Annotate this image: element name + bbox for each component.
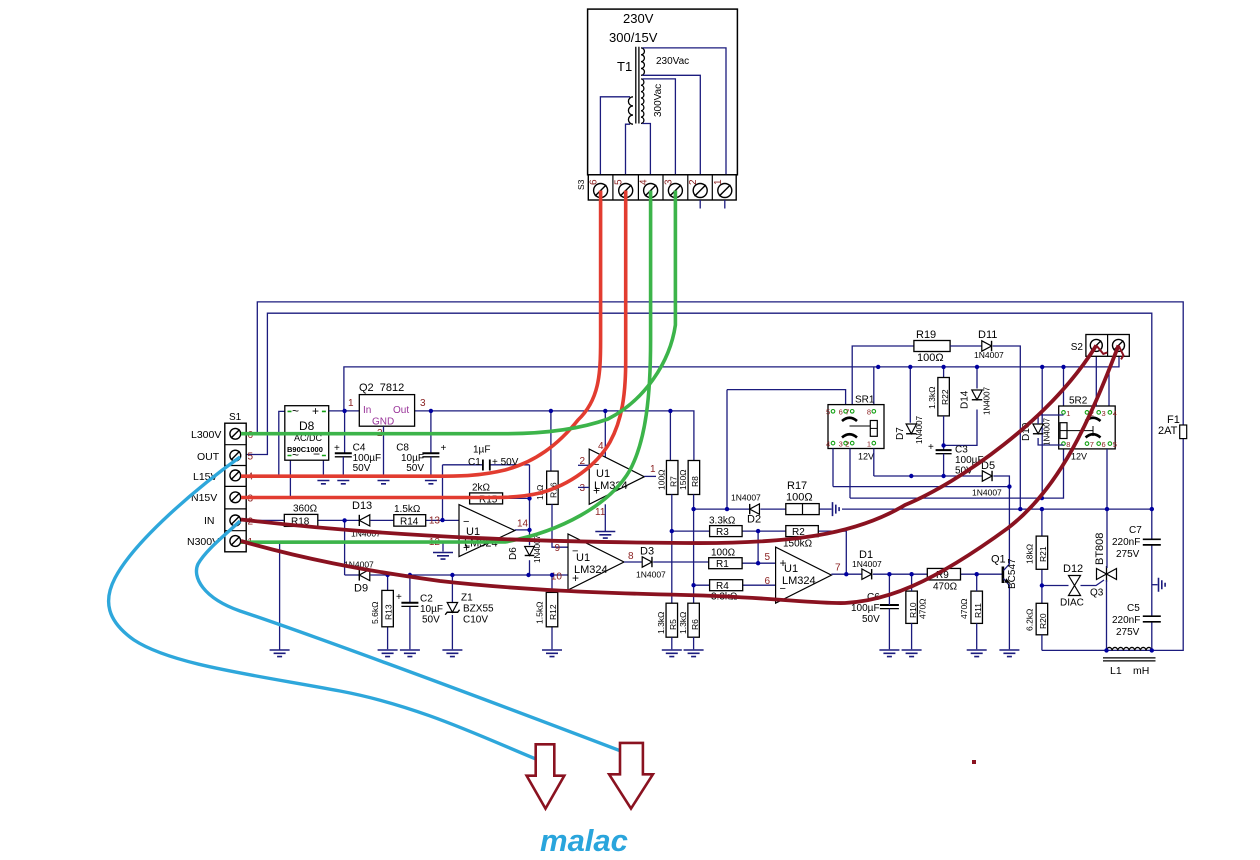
stub terminal S3-1 bbox=[724, 200, 726, 209]
wire S2-A to SR2 pin3 bbox=[1095, 356, 1097, 406]
svg-text:1.5kΩ: 1.5kΩ bbox=[394, 504, 421, 515]
wire D10 bottom bbox=[1038, 438, 1063, 445]
svg-text:5: 5 bbox=[248, 452, 254, 463]
svg-text:L1: L1 bbox=[1110, 665, 1122, 677]
SR2 coil bbox=[1060, 423, 1067, 439]
terminal block S2 bbox=[1086, 335, 1129, 357]
diode D14 bbox=[972, 390, 982, 400]
winding 300Vac bbox=[641, 79, 644, 124]
wire feedback left vertical bbox=[442, 465, 444, 520]
wire U1a pin3 stub bbox=[578, 486, 589, 488]
SR1 contact link bbox=[850, 425, 871, 427]
wire N300V ground tap bbox=[279, 541, 281, 650]
svg-text:R5: R5 bbox=[668, 619, 678, 630]
wire R10 stems bbox=[911, 574, 913, 649]
wire unregulated supply rail bbox=[344, 356, 1119, 411]
diode D6 bbox=[525, 547, 535, 556]
wire Z1 stems bbox=[451, 575, 453, 649]
terminal S3-2 screw bbox=[693, 184, 707, 198]
wire SR2 pin1 to rail bbox=[1063, 367, 1065, 406]
svg-text:+: + bbox=[928, 442, 934, 453]
svg-text:3: 3 bbox=[1102, 409, 1106, 418]
svg-text:1: 1 bbox=[867, 440, 871, 449]
wire D8 AC bottom to N15V bbox=[289, 460, 291, 497]
wire Q2 GND to ground bbox=[383, 426, 385, 476]
triac Q3 bbox=[1097, 569, 1107, 580]
wire R17 to ground right bbox=[819, 508, 831, 510]
svg-text:D3: D3 bbox=[640, 546, 654, 558]
svg-text:8: 8 bbox=[628, 551, 634, 562]
wire D7 top bbox=[909, 367, 911, 423]
svg-text:300Vac: 300Vac bbox=[653, 84, 664, 117]
svg-text:2: 2 bbox=[845, 440, 849, 449]
svg-text:C4: C4 bbox=[353, 443, 366, 454]
svg-text:D7: D7 bbox=[895, 427, 906, 440]
resistor R13 bbox=[382, 590, 394, 626]
D8 pin marks bbox=[288, 411, 326, 455]
svg-text:7: 7 bbox=[1090, 440, 1094, 449]
stray dot bbox=[972, 760, 976, 764]
svg-text:275V: 275V bbox=[1116, 627, 1140, 638]
svg-text:T1: T1 bbox=[617, 59, 632, 74]
ground R13 bbox=[378, 650, 398, 657]
wire SR2 pin4 to rail bbox=[1108, 367, 1110, 406]
capacitor C3 bbox=[936, 449, 952, 451]
Q1 emitter bbox=[1004, 579, 1010, 650]
wire R1 line bbox=[742, 562, 776, 564]
wire L300V perimeter loop with F1 and right border bbox=[257, 302, 1183, 651]
wire red 15VAC from S3-6 to S1 L15V bbox=[241, 191, 601, 477]
svg-text:50V: 50V bbox=[353, 463, 371, 474]
resistor R1 bbox=[709, 558, 742, 569]
wire reference line D9 to U1c pin10 bbox=[370, 574, 568, 576]
svg-text:Out: Out bbox=[393, 405, 409, 416]
svg-text:3: 3 bbox=[839, 440, 843, 449]
svg-text:R10: R10 bbox=[908, 602, 918, 618]
svg-text:470Ω: 470Ω bbox=[933, 582, 958, 593]
wire winding300 bottom to terminal 4 bbox=[642, 124, 650, 184]
wire R8 bottom through D2 line to R6 bbox=[693, 495, 695, 604]
relay SR1 body bbox=[828, 405, 884, 449]
resistor R22 bbox=[938, 378, 950, 416]
svg-text:4: 4 bbox=[639, 179, 650, 185]
wire D3 to R1 bbox=[653, 561, 709, 563]
svg-text:1.3kΩ: 1.3kΩ bbox=[927, 387, 937, 409]
terminal S1-6 screw bbox=[230, 428, 241, 439]
wire U1b pin12 to ground bbox=[443, 541, 459, 551]
svg-text:D12: D12 bbox=[1063, 563, 1083, 575]
resistor R18 bbox=[284, 514, 318, 526]
wire D2 to R17 bbox=[760, 508, 786, 510]
svg-text:6: 6 bbox=[1102, 440, 1106, 449]
wire C2 stems bbox=[409, 575, 411, 649]
ground C8 bbox=[421, 477, 441, 484]
wire R7 bottom through R3 line to R5 bbox=[671, 495, 673, 604]
svg-text:DIAC: DIAC bbox=[1060, 598, 1084, 609]
ground Z1 bbox=[442, 650, 462, 657]
wire C8 bottom bbox=[430, 457, 432, 477]
svg-text:100Ω: 100Ω bbox=[786, 492, 813, 504]
wire R12 stems bbox=[551, 575, 553, 649]
zener Z1 bbox=[447, 603, 457, 613]
terminal strip S3 bbox=[588, 175, 736, 200]
resistor R10 bbox=[906, 591, 918, 623]
svg-text:230Vac: 230Vac bbox=[656, 56, 689, 67]
svg-text:R6: R6 bbox=[690, 619, 700, 630]
resistor R20 bbox=[1036, 603, 1048, 635]
svg-text:3.3kΩ: 3.3kΩ bbox=[709, 516, 736, 527]
terminal S1-4 screw bbox=[230, 470, 241, 481]
ground Q1 bbox=[999, 650, 1019, 657]
wire R9 to Q1 base bbox=[961, 573, 1003, 575]
junction node dots bbox=[342, 409, 346, 413]
wire U1a pin11 to ground bbox=[604, 504, 606, 531]
svg-text:1: 1 bbox=[650, 464, 656, 475]
terminal S3-6 screw bbox=[594, 184, 608, 198]
op-amp U1d bbox=[776, 547, 832, 603]
diode D7 bbox=[906, 424, 916, 434]
wire reference line left segment to D9 bbox=[345, 574, 360, 576]
svg-text:5: 5 bbox=[614, 179, 625, 185]
svg-text:100µF: 100µF bbox=[851, 603, 880, 614]
svg-text:6: 6 bbox=[589, 179, 600, 185]
svg-text:18kΩ: 18kΩ bbox=[1024, 544, 1034, 564]
maroon tail S2-A bbox=[1096, 345, 1107, 354]
resistor R14 bbox=[394, 515, 426, 527]
svg-text:R3: R3 bbox=[716, 527, 729, 538]
wire R14 to U1b inverting input bbox=[426, 519, 459, 521]
connector S1 body bbox=[225, 423, 246, 552]
resistor R12 bbox=[546, 592, 558, 626]
wire C4 top tap bbox=[344, 411, 346, 453]
svg-text:R7: R7 bbox=[669, 476, 679, 487]
svg-text:6.2kΩ: 6.2kΩ bbox=[1024, 609, 1034, 631]
svg-text:360Ω: 360Ω bbox=[293, 504, 318, 515]
svg-text:S3: S3 bbox=[576, 179, 586, 190]
diode D2 bbox=[750, 504, 760, 514]
terminal S1-1 screw bbox=[230, 536, 241, 547]
wire pin5 node vertical bbox=[757, 531, 759, 563]
terminal S3-1 screw bbox=[718, 184, 732, 198]
wire SR2 pin5 to triac line bbox=[1106, 449, 1108, 509]
svg-text:1N4007: 1N4007 bbox=[915, 415, 924, 444]
wire R21 stems bbox=[1041, 509, 1043, 603]
svg-text:R21: R21 bbox=[1038, 546, 1048, 562]
svg-text:malac: malac bbox=[540, 823, 628, 858]
svg-text:50V: 50V bbox=[862, 614, 880, 625]
diac D12 bbox=[1069, 576, 1081, 586]
wire R16 bottom to U1c pin9 bbox=[552, 504, 568, 547]
wire R5 bottom bbox=[671, 637, 673, 649]
wire bottom rail bbox=[1042, 649, 1152, 651]
Q1 collector bbox=[1004, 487, 1010, 571]
SR2 contact link bbox=[1067, 426, 1093, 436]
wire C6 stems bbox=[888, 574, 890, 649]
wire green 300VAC from S3-4 to S1 N300V bbox=[241, 191, 651, 543]
wire green 300VAC from S3-3 to S1 L300V bbox=[241, 191, 675, 434]
svg-text:3: 3 bbox=[663, 179, 674, 185]
ground R10 bbox=[902, 650, 922, 657]
wire SR1 pin1 to line1 bbox=[873, 449, 875, 477]
terminal S2-A screw bbox=[1090, 339, 1102, 351]
svg-text:100Ω: 100Ω bbox=[657, 469, 667, 490]
wire R3 line left bbox=[672, 530, 710, 532]
wire D12 line bbox=[1042, 580, 1104, 586]
wire U1c output to D3 bbox=[624, 561, 642, 563]
svg-text:R22: R22 bbox=[940, 389, 950, 405]
svg-text:C5: C5 bbox=[1127, 603, 1140, 614]
winding 230Vac bbox=[641, 48, 644, 75]
svg-text:12V: 12V bbox=[858, 452, 874, 462]
svg-text:D14: D14 bbox=[960, 390, 971, 409]
svg-text:R4: R4 bbox=[716, 581, 729, 592]
wire SR1 pin2 to line3 bbox=[849, 449, 851, 499]
svg-text:1N4007: 1N4007 bbox=[1043, 417, 1052, 446]
wire line2 bbox=[833, 486, 1009, 488]
wire R3 to R2 bbox=[742, 530, 786, 532]
wire top jog to SR1 pin6 bbox=[727, 390, 846, 405]
wire relay contact line bbox=[842, 508, 1152, 510]
wire +12V rail Q2 Out to R8 bbox=[415, 411, 694, 461]
svg-text:1N4007: 1N4007 bbox=[983, 386, 992, 415]
stub terminal S3-2 bbox=[699, 200, 701, 209]
svg-text:1N4007: 1N4007 bbox=[974, 350, 1004, 360]
wire SR1 pin4 to line2 bbox=[832, 449, 834, 487]
wire C4 bottom bbox=[342, 457, 344, 477]
capacitor C5 bbox=[1143, 616, 1161, 622]
wire rail drop to relay drive node bbox=[1041, 367, 1043, 498]
wire right ground stub bbox=[1152, 584, 1158, 586]
svg-text:R19: R19 bbox=[916, 329, 936, 341]
svg-text:5: 5 bbox=[826, 408, 830, 417]
op-amp U1b bbox=[459, 505, 515, 557]
wire winding230 bottom to terminal 2 bbox=[643, 75, 701, 183]
wire blue from S1 OUT to arrow1 bbox=[109, 457, 553, 766]
svg-text:220nF: 220nF bbox=[1112, 615, 1140, 626]
wire R15 leads bbox=[443, 497, 530, 499]
svg-text:S2: S2 bbox=[1071, 342, 1084, 353]
svg-text:150Ω: 150Ω bbox=[678, 469, 688, 490]
ground R6 bbox=[684, 650, 704, 657]
diode D10 bbox=[1033, 424, 1043, 434]
svg-text:In: In bbox=[363, 405, 371, 416]
svg-text:U1: U1 bbox=[576, 552, 590, 564]
svg-text:R1: R1 bbox=[716, 559, 729, 570]
ground S1 area bbox=[270, 650, 290, 657]
svg-text:BC547: BC547 bbox=[1007, 558, 1018, 589]
wire D11 output drop bbox=[993, 346, 1021, 509]
svg-text:C10V: C10V bbox=[463, 615, 488, 626]
svg-text:9: 9 bbox=[554, 543, 560, 554]
resistor R5 bbox=[666, 603, 678, 637]
wire R7 top tap bbox=[669, 411, 671, 461]
wire C3 bottom bbox=[943, 454, 945, 476]
svg-text:1.5kΩ: 1.5kΩ bbox=[535, 602, 545, 624]
svg-text:OUT: OUT bbox=[197, 451, 220, 463]
svg-text:5R2: 5R2 bbox=[1069, 396, 1088, 407]
SR1 coil bbox=[870, 421, 877, 437]
wire D14 bottom jog to C3 node bbox=[944, 410, 977, 446]
resistor R6 bbox=[688, 603, 700, 637]
svg-text:Q1: Q1 bbox=[991, 554, 1006, 566]
transistor Q1 base bar bbox=[1002, 567, 1005, 584]
op-amp U1a bbox=[589, 449, 644, 504]
svg-text:2kΩ: 2kΩ bbox=[472, 483, 491, 494]
ground R5 bbox=[662, 650, 682, 657]
svg-text:6: 6 bbox=[764, 576, 770, 587]
wire red 15VAC from S3-5 to S1 N15V bbox=[241, 191, 626, 498]
arrow symbol 2 bbox=[609, 743, 653, 809]
wire SR1 pin7 to R19 bbox=[852, 346, 914, 405]
svg-text:Z1: Z1 bbox=[461, 593, 473, 604]
inductor L1 bbox=[1107, 647, 1152, 650]
wire U1a pin2 stub bbox=[578, 464, 589, 466]
wire vertical from relay box to D2 node bbox=[726, 390, 728, 510]
wire triac column bbox=[1106, 509, 1109, 650]
regulator Q2 body bbox=[359, 395, 414, 427]
wire maroon from S1 N300V to S2-B bbox=[241, 345, 1119, 603]
capacitor C7 bbox=[1143, 539, 1161, 545]
svg-text:1: 1 bbox=[348, 398, 354, 409]
svg-text:C8: C8 bbox=[396, 443, 409, 454]
resistor R16 bbox=[547, 471, 559, 504]
diode D13 bbox=[359, 515, 370, 526]
op-amp U1c bbox=[568, 534, 624, 590]
wire U1d output to D1 bbox=[831, 573, 862, 575]
svg-text:470Ω: 470Ω bbox=[959, 598, 969, 619]
primary winding bbox=[628, 97, 633, 124]
transformer T1 enclosure box bbox=[588, 9, 738, 175]
svg-text:~: ~ bbox=[292, 404, 299, 418]
svg-text:10µF: 10µF bbox=[420, 604, 443, 615]
wire R6 bottom bbox=[693, 637, 695, 649]
diode D3 bbox=[642, 557, 652, 567]
terminal S2-B screw bbox=[1113, 339, 1125, 351]
svg-text:220nF: 220nF bbox=[1112, 537, 1140, 548]
wire line3 bbox=[850, 449, 1064, 498]
Q1 emitter arrow bbox=[1004, 578, 1010, 583]
resistor R7 bbox=[666, 461, 678, 495]
svg-text:12V: 12V bbox=[1071, 452, 1087, 462]
wire D8 minus to ground bbox=[322, 460, 324, 476]
wire D8 AC top to L15V bbox=[279, 411, 285, 476]
svg-text:13: 13 bbox=[429, 516, 441, 527]
resistor R17 bbox=[786, 504, 819, 515]
svg-text:1N4007: 1N4007 bbox=[852, 559, 882, 569]
capacitor C4 bbox=[335, 452, 352, 454]
svg-text:1N4007: 1N4007 bbox=[731, 493, 761, 503]
svg-text:+: + bbox=[441, 443, 447, 454]
svg-text:D6: D6 bbox=[508, 547, 519, 560]
svg-text:275V: 275V bbox=[1116, 549, 1140, 560]
svg-text:C7: C7 bbox=[1129, 525, 1142, 536]
svg-text:SR1: SR1 bbox=[855, 395, 875, 406]
svg-text:2: 2 bbox=[688, 179, 699, 185]
terminal S3-3 screw bbox=[668, 184, 682, 198]
svg-text:R17: R17 bbox=[787, 480, 807, 492]
svg-text:8: 8 bbox=[867, 408, 871, 417]
svg-text:1: 1 bbox=[713, 179, 724, 185]
svg-text:D9: D9 bbox=[354, 583, 368, 595]
wire R22 to C3 bbox=[943, 416, 945, 450]
svg-text:5: 5 bbox=[764, 552, 770, 563]
svg-text:BT808: BT808 bbox=[1094, 533, 1106, 565]
svg-text:R12: R12 bbox=[548, 604, 558, 620]
wire S1-IN to R18 bbox=[246, 519, 284, 521]
diode D11 bbox=[982, 341, 992, 351]
svg-text:1.3kΩ: 1.3kΩ bbox=[656, 612, 666, 634]
svg-text:−: − bbox=[313, 447, 320, 461]
resistor R15 bbox=[470, 493, 503, 504]
resistor R19 bbox=[914, 341, 950, 352]
resistor R9 bbox=[927, 568, 960, 580]
svg-text:D8: D8 bbox=[299, 419, 315, 433]
wire primary bottom to terminal 5 bbox=[626, 124, 631, 183]
wire D13 to R14 bbox=[370, 519, 393, 521]
svg-text:100Ω: 100Ω bbox=[917, 352, 944, 364]
wire D6 bottom bbox=[529, 560, 531, 575]
svg-text:mH: mH bbox=[1133, 665, 1149, 677]
wire U1b output stub bbox=[515, 529, 530, 531]
SR1 contacts bbox=[842, 418, 857, 438]
svg-text:3: 3 bbox=[420, 398, 426, 409]
ground C4 bbox=[333, 477, 353, 484]
svg-text:C2: C2 bbox=[420, 594, 433, 605]
ground C6 bbox=[879, 650, 899, 657]
svg-text:U1: U1 bbox=[596, 468, 610, 480]
svg-text:2AT: 2AT bbox=[1158, 425, 1178, 437]
svg-text:+: + bbox=[572, 571, 579, 585]
capacitor C8 bbox=[422, 452, 439, 454]
relay SR2 body bbox=[1059, 406, 1116, 449]
wire D1 to R9 segment bbox=[873, 573, 927, 575]
svg-text:Q3: Q3 bbox=[1090, 588, 1104, 599]
svg-text:GND: GND bbox=[372, 417, 394, 428]
resistor R21 bbox=[1036, 536, 1048, 569]
svg-text:3: 3 bbox=[579, 483, 585, 494]
svg-text:LM324: LM324 bbox=[782, 575, 816, 587]
terminal S3-4 screw bbox=[644, 184, 658, 198]
svg-text:D2: D2 bbox=[747, 514, 761, 526]
wire R4 line bbox=[694, 584, 776, 586]
svg-text:1N4007: 1N4007 bbox=[636, 570, 666, 580]
wire D14 top bbox=[976, 367, 978, 389]
svg-text:R8: R8 bbox=[690, 476, 700, 487]
svg-text:100Ω: 100Ω bbox=[711, 548, 736, 559]
ground R12 bbox=[542, 650, 562, 657]
ground R17 bbox=[833, 502, 840, 516]
svg-text:1: 1 bbox=[1066, 409, 1070, 418]
wire IN node down to reference line bbox=[344, 520, 346, 575]
svg-text:R13: R13 bbox=[384, 604, 394, 620]
wire primary top to terminal 6 bbox=[600, 97, 630, 183]
svg-text:C3: C3 bbox=[955, 445, 968, 456]
resistor R2 bbox=[786, 526, 819, 537]
wire D10 top bbox=[1038, 415, 1063, 424]
wire line1 supply bbox=[874, 476, 1010, 487]
wire R13 stems bbox=[387, 575, 389, 649]
svg-text:14: 14 bbox=[517, 519, 529, 530]
svg-text:4: 4 bbox=[1113, 409, 1117, 418]
svg-text:50V: 50V bbox=[422, 615, 440, 626]
SR2 contacts bbox=[1086, 418, 1101, 438]
capacitor C6 bbox=[880, 604, 899, 606]
wire R22 top bbox=[943, 367, 945, 378]
wire R8 node to D2 bbox=[694, 508, 750, 510]
capacitor C1 bbox=[483, 460, 490, 471]
wire maroon from S1 IN to S2-A bbox=[241, 345, 1096, 543]
svg-text:+: + bbox=[334, 443, 340, 454]
